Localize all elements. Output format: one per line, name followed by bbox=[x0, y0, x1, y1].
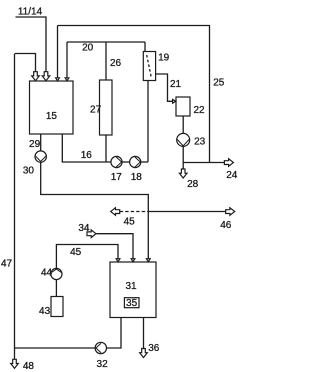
svg-text:34: 34 bbox=[78, 223, 90, 234]
svg-text:35: 35 bbox=[126, 298, 138, 309]
svg-text:31: 31 bbox=[125, 281, 137, 292]
svg-text:16: 16 bbox=[81, 150, 93, 161]
svg-text:25: 25 bbox=[213, 77, 225, 88]
svg-text:22: 22 bbox=[193, 105, 205, 116]
svg-text:28: 28 bbox=[187, 179, 199, 190]
svg-text:46: 46 bbox=[220, 220, 232, 231]
svg-text:44: 44 bbox=[41, 267, 53, 278]
svg-text:45: 45 bbox=[70, 247, 82, 258]
svg-text:15: 15 bbox=[46, 111, 58, 122]
svg-text:18: 18 bbox=[131, 172, 143, 183]
svg-text:47: 47 bbox=[1, 259, 13, 270]
svg-text:26: 26 bbox=[110, 58, 122, 69]
svg-text:11/14: 11/14 bbox=[18, 7, 43, 18]
svg-text:43: 43 bbox=[39, 306, 51, 317]
svg-text:20: 20 bbox=[82, 43, 94, 54]
svg-text:24: 24 bbox=[226, 170, 238, 181]
svg-text:17: 17 bbox=[111, 172, 123, 183]
svg-text:45: 45 bbox=[124, 216, 136, 227]
svg-text:48: 48 bbox=[23, 361, 35, 372]
svg-text:27: 27 bbox=[90, 104, 102, 115]
svg-text:36: 36 bbox=[148, 343, 160, 354]
svg-text:32: 32 bbox=[97, 359, 109, 370]
svg-text:30: 30 bbox=[23, 166, 35, 177]
svg-text:21: 21 bbox=[170, 79, 182, 90]
svg-text:19: 19 bbox=[158, 52, 170, 63]
svg-text:29: 29 bbox=[29, 139, 41, 150]
svg-text:23: 23 bbox=[194, 136, 206, 147]
